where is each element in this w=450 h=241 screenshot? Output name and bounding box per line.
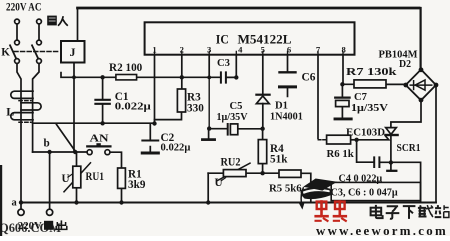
svg-text:220V AC: 220V AC	[6, 2, 42, 14]
svg-text:0.022μ: 0.022μ	[115, 102, 151, 113]
svg-text:C6: C6	[302, 72, 316, 84]
svg-text:U: U	[215, 177, 223, 189]
svg-text:RU2: RU2	[221, 157, 241, 169]
svg-text:3k9: 3k9	[128, 179, 146, 191]
svg-text:b: b	[44, 138, 50, 150]
svg-text:AN: AN	[90, 133, 110, 144]
svg-text:D1: D1	[275, 101, 288, 112]
svg-text:C4 0 022μ: C4 0 022μ	[339, 173, 383, 184]
svg-text:1μ/35V: 1μ/35V	[351, 103, 389, 114]
svg-text:C7: C7	[354, 92, 368, 103]
svg-text:8: 8	[341, 45, 346, 55]
svg-text:J: J	[70, 45, 76, 59]
svg-text:K: K	[1, 47, 10, 59]
svg-text:U: U	[62, 173, 70, 185]
svg-text:C3, C6 : 0 047μ: C3, C6 : 0 047μ	[331, 188, 398, 199]
svg-text:0.022μ: 0.022μ	[161, 143, 191, 154]
svg-text:R6 1k: R6 1k	[327, 148, 354, 160]
svg-text:R2 100: R2 100	[109, 62, 143, 74]
svg-text:51k: 51k	[270, 154, 288, 166]
svg-text:a: a	[12, 198, 18, 209]
svg-text:L: L	[6, 105, 14, 119]
svg-text:SCR1: SCR1	[397, 143, 421, 154]
svg-text:330: 330	[187, 103, 204, 115]
svg-text:C3: C3	[217, 58, 230, 69]
svg-text:IC: IC	[216, 33, 229, 47]
svg-text:1N4001: 1N4001	[270, 112, 303, 123]
svg-text:RU1: RU1	[86, 171, 105, 183]
svg-text:Q606.COM: Q606.COM	[0, 221, 61, 235]
svg-text:R7 130k: R7 130k	[346, 66, 397, 78]
svg-text:R5 5k6: R5 5k6	[269, 183, 302, 195]
svg-text:EC103D: EC103D	[346, 127, 385, 139]
svg-text:4: 4	[238, 45, 243, 55]
svg-text:C5: C5	[230, 101, 243, 112]
svg-text:www.eeworm.com: www.eeworm.com	[316, 224, 448, 236]
svg-text:D2: D2	[399, 59, 411, 70]
svg-text:PB104M: PB104M	[379, 49, 418, 61]
svg-text:1μ/35V: 1μ/35V	[217, 112, 249, 123]
